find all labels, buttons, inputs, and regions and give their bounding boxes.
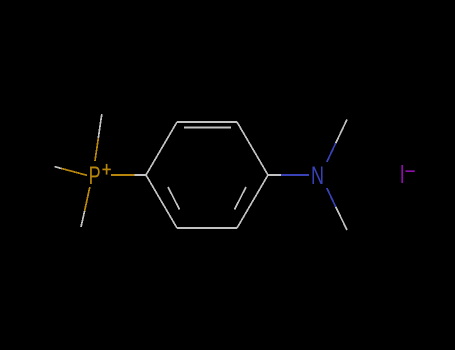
charge plus on P — [102, 164, 110, 175]
wire: N-CH3 upper bond, N half (blue) — [327, 143, 336, 162]
wire: N-CH3 lower bond, C half (gray) — [336, 207, 347, 230]
wire: P-CH3 top bond, C half (gray) — [98, 114, 102, 138]
svg-text:N: N — [311, 161, 324, 190]
wire: C(ring)-N bond, N half (blue) — [281, 174, 309, 176]
wire: ring edge BR-BL (bottom) — [177, 227, 237, 229]
charge minus on I — [406, 170, 415, 172]
wire: double bond inner line (top) — [184, 127, 231, 129]
wire: ring edge R-BR — [237, 175, 268, 228]
wire: ring edge L-TL — [146, 122, 177, 175]
wire: double bond inner line (lower-right) — [235, 187, 247, 210]
svg-text:P: P — [89, 161, 101, 190]
wire: ring edge TL-TR (top) — [177, 121, 237, 123]
wire: P-CH3 bottom bond, C half (gray) — [81, 211, 85, 227]
phosphonium group bonds — [55, 114, 147, 227]
svg-text:I: I — [400, 159, 405, 189]
wire: P-CH3 left bond, P half (gold) — [62, 169, 88, 176]
dimethylamino group bonds — [268, 120, 347, 231]
wire: P-CH3 bottom bond, P half (gold) — [85, 187, 90, 211]
wire: C(ring)-N bond, C half (gray) — [268, 174, 281, 176]
benzene ring C1-C6 (gray carbon skeleton) — [146, 122, 268, 228]
wire: ring edge BL-L — [146, 175, 177, 228]
wire: P-C(ring) bond, P half (gold) — [111, 174, 135, 176]
wire: P-CH3 left bond, C half (gray) — [55, 167, 62, 169]
wire: ring edge TR-R — [237, 122, 268, 175]
wire: N-CH3 upper bond, C half (gray) — [336, 120, 347, 144]
wire: double bond inner line (lower-left) — [168, 187, 180, 210]
wire: P-CH3 top bond, P half (gold) — [95, 138, 98, 161]
wire: N-CH3 lower bond, N half (blue) — [327, 188, 336, 207]
wire: P-C(ring) bond, C half (gray) — [135, 174, 147, 176]
